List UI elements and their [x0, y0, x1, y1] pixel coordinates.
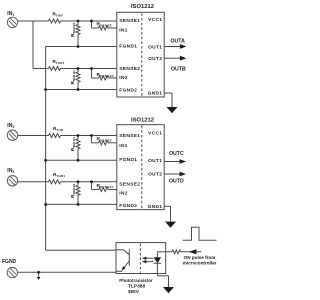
svg-text:OUTB: OUTB [171, 67, 186, 73]
svg-text:RSEN B1: RSEN B1 [70, 183, 76, 197]
svg-text:RSENSE1: RSENSE1 [97, 72, 115, 78]
svg-text:IN3: IN3 [7, 168, 14, 174]
svg-text:SENSE1: SENSE1 [119, 18, 140, 24]
svg-text:FGND1: FGND1 [119, 44, 137, 50]
svg-text:GND1: GND1 [148, 204, 163, 210]
svg-text:350V: 350V [128, 289, 140, 295]
svg-text:ISO1212: ISO1212 [131, 4, 154, 10]
svg-text:RSEN B1: RSEN B1 [70, 137, 76, 151]
svg-text:OUTD: OUTD [169, 179, 184, 185]
svg-text:FGND1: FGND1 [119, 157, 137, 163]
svg-text:RSENSE: RSENSE [97, 136, 113, 142]
svg-text:OUT1: OUT1 [148, 158, 162, 164]
svg-text:RTHR1: RTHR1 [53, 172, 65, 178]
svg-text:ISO1212: ISO1212 [131, 118, 154, 124]
svg-text:IN1: IN1 [119, 143, 128, 149]
svg-text:SENSE1: SENSE1 [119, 133, 140, 139]
svg-text:RTHR1: RTHR1 [53, 59, 65, 65]
svg-text:OUTC: OUTC [169, 151, 184, 157]
svg-text:RTHR: RTHR [53, 126, 64, 132]
svg-text:FGND: FGND [2, 259, 17, 265]
svg-text:RSEN B1: RSEN B1 [70, 22, 76, 36]
svg-text:FGND2: FGND2 [119, 203, 137, 209]
svg-text:OUTA: OUTA [171, 38, 186, 44]
svg-text:IN1: IN1 [7, 11, 14, 17]
svg-text:IN2: IN2 [7, 123, 14, 129]
svg-text:RSEN B1: RSEN B1 [70, 70, 76, 84]
svg-text:OUT2: OUT2 [148, 56, 162, 62]
svg-text:ON pulse from: ON pulse from [184, 255, 216, 260]
svg-text:microcontroller: microcontroller [183, 260, 217, 265]
svg-text:TLP388: TLP388 [128, 284, 145, 290]
svg-text:IN1: IN1 [119, 28, 128, 34]
svg-text:SENSE2: SENSE2 [119, 66, 140, 72]
svg-text:OUT2: OUT2 [148, 171, 162, 177]
svg-text:SENSE2: SENSE2 [119, 182, 140, 188]
svg-text:FGND2: FGND2 [119, 88, 137, 94]
svg-text:Phototransistor: Phototransistor [119, 278, 153, 283]
svg-text:OUT1: OUT1 [148, 44, 162, 50]
svg-text:GND1: GND1 [148, 90, 163, 96]
svg-text:RTHR: RTHR [53, 11, 64, 17]
svg-text:IN2: IN2 [119, 190, 128, 196]
svg-text:IN2: IN2 [119, 75, 128, 81]
svg-text:VCC1: VCC1 [148, 131, 162, 137]
svg-text:RSENSE: RSENSE [97, 22, 113, 28]
svg-text:VCC1: VCC1 [148, 17, 162, 23]
svg-text:RSENSE1: RSENSE1 [97, 183, 115, 189]
